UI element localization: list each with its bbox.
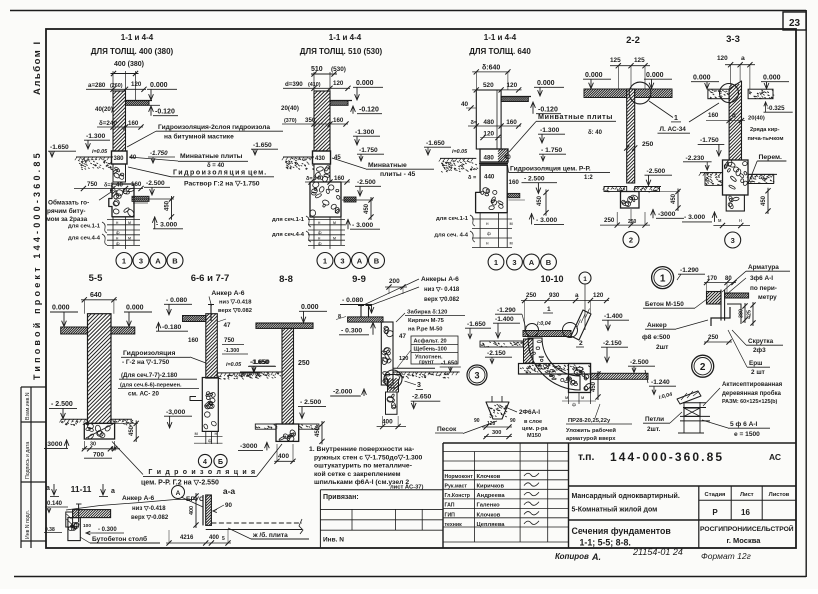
svg-text:ф: ф bbox=[487, 231, 491, 236]
svg-text:- 3.000: - 3.000 bbox=[684, 214, 705, 221]
right footing block 10-10 bbox=[569, 364, 591, 393]
footing rubble block bbox=[109, 184, 134, 217]
svg-text:- 3.000: - 3.000 bbox=[536, 217, 557, 224]
svg-text:Арматура: Арматура bbox=[748, 264, 779, 271]
svg-text:2-2: 2-2 bbox=[626, 35, 640, 46]
wall 6-6 hatched bbox=[206, 314, 218, 378]
column rubble 11-11 bbox=[68, 518, 80, 541]
outer border top line bbox=[10, 10, 806, 12]
svg-text:Инв. N: Инв. N bbox=[323, 537, 344, 544]
section depth table HMF bbox=[107, 218, 140, 220]
svg-text:-1.290: -1.290 bbox=[497, 307, 516, 314]
svg-text:а-а: а-а bbox=[223, 486, 236, 496]
svg-text:Петли: Петли bbox=[645, 416, 664, 423]
svg-text:1: 1 bbox=[547, 306, 551, 313]
svg-text:для сеч.1-1: для сеч.1-1 bbox=[272, 217, 305, 223]
svg-text:-2.150: -2.150 bbox=[487, 350, 506, 357]
svg-text:0.38: 0.38 bbox=[45, 527, 55, 533]
svg-text:- 1.750: - 1.750 bbox=[541, 147, 562, 154]
svg-text:3ф6 А-I: 3ф6 А-I bbox=[750, 275, 773, 282]
floor slab right of wall bbox=[126, 101, 150, 106]
svg-text:90: 90 bbox=[510, 418, 516, 424]
svg-text:верх ▽0.082: верх ▽0.082 bbox=[424, 297, 460, 303]
svg-text:метру: метру bbox=[758, 294, 777, 301]
dim 450 8-8 bbox=[321, 421, 323, 444]
svg-text:510: 510 bbox=[311, 66, 323, 73]
svg-text:480: 480 bbox=[483, 119, 494, 126]
left wall strip 10-10 bbox=[524, 339, 534, 363]
wall 510 hatched bbox=[314, 91, 330, 151]
svg-text:-1.300: -1.300 bbox=[224, 348, 239, 354]
svg-text:5 ф 6 А-I: 5 ф 6 А-I bbox=[730, 421, 758, 428]
svg-text:грунт: грунт bbox=[419, 360, 434, 366]
svg-text:м: м bbox=[128, 220, 131, 225]
svg-text:Клочков: Клочков bbox=[477, 512, 501, 518]
svg-text:120: 120 bbox=[483, 130, 494, 137]
svg-text:1-1 и 4-4: 1-1 и 4-4 bbox=[121, 33, 154, 42]
svg-text:520: 520 bbox=[483, 82, 494, 89]
svg-text:м: м bbox=[718, 218, 722, 224]
svg-text:δ: δ bbox=[732, 113, 736, 120]
detail circle 3 double bbox=[467, 365, 487, 385]
svg-text:верх ▽0.082: верх ▽0.082 bbox=[218, 308, 252, 314]
svg-text:-3,000: -3,000 bbox=[166, 409, 185, 416]
svg-text:цем. Р-Р. Г.2 на ▽-2.550: цем. Р-Р. Г.2 на ▽-2.550 bbox=[141, 480, 219, 487]
detail callout circle node 1 bbox=[629, 82, 651, 104]
grid circles 1 3 A B bbox=[116, 253, 132, 269]
svg-text:5-Комнатный жилой дом: 5-Комнатный жилой дом bbox=[572, 506, 658, 514]
svg-text:23: 23 bbox=[789, 18, 801, 29]
svg-text:А: А bbox=[176, 490, 181, 497]
floor bar 11-11 bbox=[73, 510, 111, 518]
dim 450 2-2 bbox=[677, 189, 679, 212]
svg-text:ПР28-20,25,22у: ПР28-20,25,22у bbox=[568, 418, 611, 424]
svg-text:400 (380): 400 (380) bbox=[114, 61, 144, 68]
svg-text:Мансардный одноквартирный.: Мансардный одноквартирный. bbox=[572, 492, 680, 500]
svg-text:В: В bbox=[546, 258, 552, 267]
svg-text:1: 1 bbox=[122, 256, 126, 265]
ground line left of wall bbox=[76, 156, 113, 158]
svg-text:380: 380 bbox=[739, 309, 745, 318]
svg-text:Песок: Песок bbox=[437, 426, 457, 433]
svg-text:ф: ф bbox=[116, 230, 120, 235]
svg-text:м: м bbox=[195, 432, 198, 437]
svg-text:-3000: -3000 bbox=[658, 211, 676, 218]
svg-text:40: 40 bbox=[130, 155, 137, 161]
svg-text:430: 430 bbox=[315, 156, 326, 162]
svg-text:1. Внутренние поверхности на: 1. Внутренние поверхности на- bbox=[309, 446, 414, 453]
svg-text:-1.650: -1.650 bbox=[253, 142, 272, 149]
svg-text:т.п.: т.п. bbox=[578, 451, 594, 463]
anchor bolts 9-9 bbox=[360, 305, 362, 317]
svg-text:400: 400 bbox=[382, 419, 393, 426]
svg-text:Раствор Г:2 на ▽-1.750: Раствор Г:2 на ▽-1.750 bbox=[184, 181, 260, 188]
dim 450 3-3 bbox=[767, 188, 769, 214]
svg-text:40: 40 bbox=[504, 155, 511, 161]
ground left 640 bbox=[440, 157, 476, 159]
svg-text:300: 300 bbox=[492, 430, 501, 436]
svg-text:- Г-2 на ▽-1.750: - Г-2 на ▽-1.750 bbox=[122, 359, 170, 366]
svg-text:- 3.000: - 3.000 bbox=[156, 222, 177, 229]
svg-text:6-6 и 7-7: 6-6 и 7-7 bbox=[191, 273, 230, 284]
svg-text:цем. р-ра: цем. р-ра bbox=[522, 426, 548, 432]
svg-text:ф: ф bbox=[208, 438, 212, 444]
svg-text:лист АС-37): лист АС-37) bbox=[390, 485, 424, 491]
ground bars at footing 8-8 bbox=[255, 424, 276, 429]
svg-text:3: 3 bbox=[417, 382, 421, 389]
svg-text:Анкер: Анкер bbox=[647, 322, 667, 329]
svg-text:-1.750: -1.750 bbox=[359, 147, 378, 154]
svg-text:i:0,04: i:0,04 bbox=[537, 321, 551, 327]
svg-text:0.000: 0.000 bbox=[763, 75, 781, 82]
svg-text:РАЗМ: 60×125×125(b): РАЗМ: 60×125×125(b) bbox=[722, 399, 778, 405]
svg-text:125: 125 bbox=[634, 57, 645, 64]
title block: stage/sheet header bbox=[699, 499, 796, 501]
svg-text:0.000: 0.000 bbox=[126, 305, 144, 312]
svg-text:5: 5 bbox=[222, 536, 225, 542]
box asphalt layers bbox=[411, 336, 458, 364]
gidroizol layer 640 bbox=[479, 163, 508, 165]
svg-text:21154-01 24: 21154-01 24 bbox=[632, 547, 683, 557]
svg-text:-0.120: -0.120 bbox=[359, 107, 379, 114]
svg-text:2ряда кир-: 2ряда кир- bbox=[750, 127, 780, 133]
svg-text:450: 450 bbox=[537, 195, 543, 206]
dim 400 a-a bbox=[195, 493, 197, 528]
svg-text:Анкеры А-6: Анкеры А-6 bbox=[421, 276, 459, 283]
svg-text:Р: Р bbox=[712, 508, 718, 517]
svg-text:0.140: 0.140 bbox=[47, 501, 63, 507]
svg-text:(530): (530) bbox=[331, 66, 346, 73]
svg-text:ДЛЯ ТОЛЩ. 400 (380): ДЛЯ ТОЛЩ. 400 (380) bbox=[91, 47, 174, 56]
svg-text:Стадия: Стадия bbox=[705, 492, 726, 498]
svg-text:Листов: Листов bbox=[769, 492, 790, 498]
svg-text:-1.300: -1.300 bbox=[86, 133, 105, 140]
svg-text:-1.750: -1.750 bbox=[150, 150, 168, 157]
det2 wood plug with X bbox=[684, 408, 700, 416]
svg-text:мом за 2раза: мом за 2раза bbox=[46, 216, 88, 223]
svg-text:пича-тычком: пича-тычком bbox=[748, 136, 784, 142]
svg-text:-1.650: -1.650 bbox=[250, 359, 269, 366]
svg-text:8-8: 8-8 bbox=[279, 274, 293, 285]
right pad 640 bbox=[508, 193, 520, 197]
svg-text:Анкер А-6: Анкер А-6 bbox=[122, 495, 155, 502]
svg-text:δ=2: δ=2 bbox=[99, 120, 110, 127]
svg-text:0.000: 0.000 bbox=[646, 72, 664, 79]
svg-text:Подпись и дата: Подпись и дата bbox=[25, 442, 31, 479]
svg-text:930: 930 bbox=[549, 292, 560, 299]
svg-text:-2.650: -2.650 bbox=[412, 394, 431, 401]
svg-text:на Р.ре М-50: на Р.ре М-50 bbox=[408, 327, 443, 333]
svg-text:Асфальт. 20: Асфальт. 20 bbox=[414, 338, 447, 345]
right slab bar 10-10 bbox=[591, 373, 649, 379]
svg-text:Типовой проект 144-000-360.8: Типовой проект 144-000-360.85 bbox=[32, 150, 42, 380]
svg-text:450: 450 bbox=[364, 203, 370, 214]
svg-text:160: 160 bbox=[188, 337, 199, 344]
svg-text:-0.325: -0.325 bbox=[767, 105, 785, 112]
marks M M F 10-10 bbox=[568, 393, 570, 405]
dim 450 vertical 640 bbox=[545, 189, 547, 215]
svg-text:Альбом I: Альбом I bbox=[32, 40, 43, 95]
svg-text:а: а bbox=[575, 292, 579, 299]
svg-text:120: 120 bbox=[487, 421, 496, 427]
svg-text:0.000: 0.000 bbox=[537, 80, 555, 87]
svg-text:750: 750 bbox=[87, 181, 98, 188]
privyazan table bbox=[320, 489, 443, 491]
svg-text:Забирка δ:120: Забирка δ:120 bbox=[407, 309, 447, 316]
svg-text:ф8 е:500: ф8 е:500 bbox=[642, 334, 670, 341]
svg-text:4: 4 bbox=[203, 459, 207, 466]
svg-text:400: 400 bbox=[209, 535, 220, 541]
svg-text:на битумной мастике: на битумной мастике bbox=[164, 133, 234, 141]
dim 450 vertical bbox=[171, 196, 173, 220]
det2 beam lines bbox=[683, 402, 706, 404]
det1 drawing: wall block bbox=[707, 292, 722, 305]
svg-text:для сеч.1-1: для сеч.1-1 bbox=[436, 216, 469, 222]
svg-text:а: а bbox=[111, 488, 115, 495]
svg-text:Л. АС-34: Л. АС-34 bbox=[660, 126, 687, 133]
svg-text:2Ф6А-I: 2Ф6А-I bbox=[519, 409, 540, 416]
svg-text:144-000-360.85: 144-000-360.85 bbox=[610, 450, 724, 464]
svg-text:100: 100 bbox=[83, 523, 91, 529]
svg-text:1: 1 bbox=[323, 256, 327, 265]
svg-text:(370): (370) bbox=[284, 118, 297, 124]
svg-text:техник: техник bbox=[445, 522, 463, 528]
svg-text:90: 90 bbox=[225, 502, 232, 509]
zhb plita dashed bbox=[211, 522, 302, 524]
svg-text:А: А bbox=[155, 256, 161, 265]
svg-text:низ ▽-0.418: низ ▽-0.418 bbox=[132, 506, 166, 512]
curved vault band bbox=[528, 338, 580, 390]
detail 2 title circle bbox=[692, 355, 714, 377]
svg-text:1: 1 bbox=[660, 274, 666, 285]
svg-text:- 2.500: - 2.500 bbox=[51, 401, 73, 408]
svg-text:м: м bbox=[333, 235, 336, 240]
wall 9-9 rubble column bbox=[381, 322, 393, 385]
svg-text:Гл.Констр: Гл.Констр bbox=[445, 493, 470, 499]
svg-text:рячим биту-: рячим биту- bbox=[47, 207, 86, 215]
svg-text:2шт.: 2шт. bbox=[647, 426, 660, 433]
svg-text:120: 120 bbox=[131, 81, 142, 88]
svg-text:3-3: 3-3 bbox=[726, 34, 740, 45]
svg-text:(410): (410) bbox=[308, 82, 321, 88]
svg-text:Минватные: Минватные bbox=[368, 162, 407, 169]
svg-text:0.000: 0.000 bbox=[356, 80, 374, 87]
wall lower rubble 6-6 bbox=[202, 378, 218, 432]
svg-text:440: 440 bbox=[484, 174, 495, 181]
svg-text:-1.400: -1.400 bbox=[495, 316, 514, 323]
svg-text:Минватные плиты: Минватные плиты bbox=[538, 112, 613, 121]
svg-text:-1.650: -1.650 bbox=[467, 321, 486, 328]
grid circles 640 bbox=[488, 254, 504, 270]
anchor bolt 6-6 bbox=[210, 304, 212, 321]
svg-text:н: н bbox=[739, 218, 742, 224]
svg-text:Галенко: Галенко bbox=[477, 503, 501, 509]
svg-text:1-1; 5-5; 8-8.: 1-1; 5-5; 8-8. bbox=[580, 538, 631, 548]
minplita block 480/40 bbox=[480, 149, 508, 162]
svg-text:40(20): 40(20) bbox=[95, 106, 113, 113]
svg-text:δ =: δ = bbox=[468, 175, 477, 181]
footing neck 3-3 bbox=[726, 195, 744, 211]
svg-text:Бутобетон столб: Бутобетон столб bbox=[92, 535, 147, 543]
svg-text:160: 160 bbox=[509, 179, 520, 186]
floor slab right 2-2 bbox=[635, 89, 672, 98]
floor slab right bbox=[330, 101, 348, 106]
svg-text:ружных стен с ▽-1.750до▽-1.300: ружных стен с ▽-1.750до▽-1.300 bbox=[314, 454, 423, 461]
svg-text:АС: АС bbox=[769, 452, 781, 462]
svg-text:А.: А. bbox=[591, 552, 601, 562]
svg-text:оштукатурить по металличе-: оштукатурить по металличе- bbox=[314, 463, 412, 470]
svg-text:1: 1 bbox=[583, 276, 587, 283]
svg-text:Привязан:: Привязан: bbox=[323, 494, 359, 501]
junction circles bbox=[526, 324, 539, 337]
ground 5-5 bbox=[61, 418, 88, 420]
svg-text:для сеч. 4-4: для сеч. 4-4 bbox=[434, 233, 468, 239]
svg-text:для сеч.4-4: для сеч.4-4 bbox=[272, 232, 305, 238]
svg-text:700: 700 bbox=[93, 452, 104, 459]
svg-text:-3000: -3000 bbox=[240, 443, 258, 450]
svg-text:20(40): 20(40) bbox=[281, 105, 299, 112]
svg-text:Рук.маст: Рук.маст bbox=[445, 484, 468, 490]
svg-text:480: 480 bbox=[484, 155, 495, 162]
svg-text:Г и д р о и з о л я ц и я: Г и д р о и з о л я ц и я bbox=[148, 469, 256, 476]
svg-text:В: В bbox=[172, 256, 178, 265]
svg-text:ф: ф bbox=[318, 241, 322, 246]
svg-text:деревянная пробка: деревянная пробка bbox=[722, 390, 782, 397]
svg-text:-2.500: -2.500 bbox=[146, 180, 165, 187]
floor slab right 5-5 bbox=[111, 327, 135, 334]
title block: signature table bbox=[443, 451, 569, 453]
svg-text:-1.750: -1.750 bbox=[700, 137, 719, 144]
svg-text:11-11: 11-11 bbox=[71, 484, 92, 494]
cut line wavy bbox=[66, 500, 196, 511]
svg-text:1-1 и 4-4: 1-1 и 4-4 bbox=[484, 33, 517, 42]
svg-text:а=280: а=280 bbox=[88, 82, 106, 89]
svg-text:-2.150: -2.150 bbox=[603, 340, 622, 347]
svg-text:125: 125 bbox=[610, 57, 621, 64]
svg-text:кой сетке с закреплением: кой сетке с закреплением bbox=[314, 470, 401, 478]
floor slab left 3-3 bbox=[708, 89, 729, 99]
det1 anchor hooks bbox=[711, 307, 730, 326]
svg-text:- 0.300: - 0.300 bbox=[341, 328, 362, 335]
svg-text:8: 8 bbox=[338, 314, 341, 320]
footing 8-8 bbox=[276, 424, 299, 441]
svg-text:-1.300: -1.300 bbox=[355, 129, 374, 136]
svg-text:0.000: 0.000 bbox=[693, 75, 711, 82]
svg-text:цем.: цем. bbox=[248, 170, 267, 177]
svg-text:Формат 12г: Формат 12г bbox=[701, 551, 751, 561]
svg-text:250: 250 bbox=[526, 292, 537, 299]
svg-text:400: 400 bbox=[189, 506, 195, 515]
svg-text:120: 120 bbox=[333, 80, 344, 87]
depth marks 6-6 bbox=[205, 431, 207, 444]
pad at 9-9 wall base bbox=[385, 375, 400, 393]
leader to 8-8 footing bbox=[257, 444, 282, 476]
svg-text:-1.650: -1.650 bbox=[426, 140, 445, 147]
svg-text:640: 640 bbox=[90, 292, 102, 299]
svg-text:м: м bbox=[565, 396, 568, 401]
wall 3-3 hatched bbox=[729, 81, 741, 160]
brus bar bbox=[206, 495, 212, 525]
minplita block 380 bbox=[112, 151, 128, 164]
svg-text:ф: ф bbox=[572, 402, 576, 408]
svg-text:м: м bbox=[128, 235, 131, 240]
svg-text:а: а bbox=[741, 55, 745, 62]
svg-text:0.000: 0.000 bbox=[52, 305, 70, 312]
svg-text:16: 16 bbox=[741, 508, 750, 517]
dims 380 425 bbox=[744, 303, 746, 323]
svg-text:арматурой вверх: арматурой вверх bbox=[566, 435, 616, 442]
svg-text:ф: ф bbox=[116, 241, 120, 246]
svg-text:9-9: 9-9 bbox=[352, 274, 366, 285]
svg-text:Сечения фундаментов: Сечения фундаментов bbox=[572, 526, 672, 536]
svg-text:Бетон М-150: Бетон М-150 bbox=[645, 301, 684, 308]
svg-text:Цепляева: Цепляева bbox=[477, 522, 506, 528]
floor slab 9-9 bbox=[348, 317, 383, 322]
dim 450 vertical bbox=[370, 197, 372, 220]
svg-text:низ ▽-0.418: низ ▽-0.418 bbox=[219, 300, 252, 306]
svg-text:1-1 и 4-4: 1-1 и 4-4 bbox=[329, 33, 362, 42]
svg-text:Гидроизоляция-2слоя гидроизола: Гидроизоляция-2слоя гидроизола bbox=[158, 124, 270, 131]
svg-text:Инв N подл.: Инв N подл. bbox=[25, 510, 31, 539]
svg-text:3: 3 bbox=[731, 236, 735, 245]
footing 640 stepped bbox=[476, 165, 508, 213]
svg-text:-0.180: -0.180 bbox=[162, 324, 181, 331]
svg-text:Андреева: Андреева bbox=[477, 493, 506, 499]
svg-text:е = 1500: е = 1500 bbox=[734, 431, 760, 438]
svg-text:0.000: 0.000 bbox=[150, 82, 168, 89]
svg-text:d=390: d=390 bbox=[285, 81, 303, 88]
svg-text:В: В bbox=[374, 256, 380, 265]
ground left 10-10 bbox=[480, 341, 523, 347]
ground left bbox=[283, 156, 314, 158]
svg-text:-2.500: -2.500 bbox=[357, 179, 376, 186]
sand cone detail bbox=[486, 402, 509, 419]
callout circle A bbox=[172, 486, 185, 499]
svg-text:Киричков: Киричков bbox=[477, 484, 505, 490]
svg-text:- 2.500: - 2.500 bbox=[524, 176, 545, 183]
svg-text:-1.400: -1.400 bbox=[604, 313, 623, 320]
detail ref circle 1 small bbox=[579, 272, 591, 284]
svg-text:250: 250 bbox=[642, 141, 654, 148]
leader to 5-5 footing bbox=[112, 442, 143, 475]
svg-text:i=0.05: i=0.05 bbox=[226, 362, 242, 368]
svg-text:120: 120 bbox=[593, 292, 604, 299]
svg-text:2: 2 bbox=[700, 362, 706, 373]
svg-text:-1.240: -1.240 bbox=[651, 379, 670, 386]
dim 450 5-5 bbox=[135, 420, 137, 442]
svg-text:20(40): 20(40) bbox=[748, 116, 765, 122]
svg-text:Гидроизоляция: Гидроизоляция bbox=[173, 170, 247, 177]
svg-text:2 шт: 2 шт bbox=[751, 369, 765, 376]
svg-text:30: 30 bbox=[90, 442, 96, 448]
depth table HM 640 bbox=[472, 218, 512, 220]
svg-text:ГАП: ГАП bbox=[445, 503, 455, 509]
svg-text:а: а bbox=[46, 485, 50, 492]
right pad bbox=[344, 197, 356, 202]
svg-text:г. Москва: г. Москва bbox=[727, 536, 762, 545]
footing 3-3 bbox=[723, 160, 749, 195]
floor slab left 2-2 bbox=[584, 89, 627, 98]
svg-text:Ерш: Ерш bbox=[749, 360, 763, 367]
svg-text:1:2: 1:2 bbox=[584, 175, 593, 181]
svg-text:- 3.000: - 3.000 bbox=[352, 222, 373, 229]
svg-text:ДЛЯ ТОЛЩ. 640: ДЛЯ ТОЛЩ. 640 bbox=[469, 47, 531, 56]
det2 sloped plank bbox=[677, 391, 701, 404]
svg-text:Гидроизоляция: Гидроизоляция bbox=[123, 350, 175, 357]
svg-text:250: 250 bbox=[708, 334, 719, 341]
svg-text:160: 160 bbox=[506, 119, 517, 126]
svg-text:-1.650: -1.650 bbox=[441, 361, 457, 367]
